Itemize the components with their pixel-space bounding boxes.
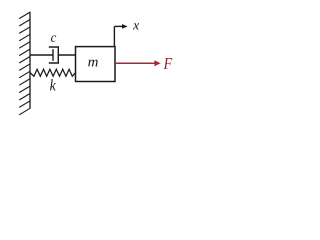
damper piston plate bbox=[52, 49, 54, 61]
label c bbox=[51, 35, 56, 41]
damper rod (wall to piston) bbox=[30, 54, 53, 56]
wall vertical line bbox=[29, 12, 31, 109]
force arrowhead (red) bbox=[154, 60, 160, 66]
damper output rod (cylinder to mass) bbox=[58, 54, 75, 56]
x axis horizontal arrow bbox=[114, 25, 122, 27]
label x bbox=[133, 23, 139, 29]
label m bbox=[88, 60, 98, 67]
damper cylinder bbox=[49, 47, 59, 63]
wall hatching bbox=[19, 12, 30, 115]
x axis vertical segment bbox=[113, 26, 115, 46]
force arrow F shaft (red) bbox=[115, 62, 156, 64]
x axis arrowhead bbox=[122, 24, 128, 29]
label F bbox=[164, 58, 173, 69]
label k bbox=[50, 79, 56, 90]
mass m block bbox=[76, 47, 116, 82]
spring k (zigzag wall to mass) bbox=[30, 69, 75, 76]
